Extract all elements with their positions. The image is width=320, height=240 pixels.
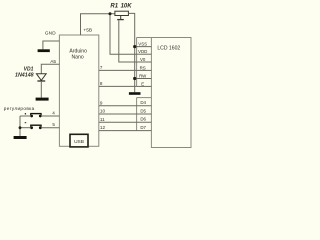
button SB2 actuator — [30, 124, 41, 126]
wire buttons common to ground — [19, 116, 21, 136]
V0 rung wire — [137, 61, 152, 63]
VSS rung wire — [135, 46, 152, 48]
resistor R1 (potentiometer body) — [115, 11, 128, 15]
wire wiper to V0 — [119, 20, 137, 62]
R1 wiper tap — [120, 16, 122, 20]
svg-text:11: 11 — [100, 117, 105, 122]
wire button SB2 to pin 5 — [42, 127, 59, 129]
diode VD1 cathode bar — [37, 80, 45, 82]
ladder top rung — [137, 37, 152, 39]
label minus — [25, 122, 27, 124]
wire pin12 to D7 — [99, 130, 152, 132]
svg-text:10K: 10K — [121, 4, 133, 10]
Arduino Nano U-box — [59, 35, 98, 146]
svg-text:5: 5 — [52, 122, 55, 127]
wire pin7 to RS — [99, 69, 137, 71]
wire diode to ground — [40, 81, 42, 98]
wire button SB1 to pin 4 — [42, 115, 59, 117]
RW rung — [135, 78, 152, 80]
wire pin11 to D6 — [99, 121, 152, 123]
node RW junction — [133, 77, 136, 80]
ground symbol under diode — [36, 98, 49, 101]
R1 right lead to ground rail — [128, 13, 134, 92]
LCD 1602 box — [151, 38, 191, 148]
svg-text:VDD: VDD — [138, 49, 147, 54]
button SB1 actuator — [30, 113, 41, 115]
wire pin10 to D5 — [99, 113, 152, 115]
wire GND net from Arduino — [43, 41, 60, 49]
wire pin8 to E — [99, 85, 137, 87]
svg-text:R1: R1 — [110, 4, 118, 10]
svg-text:9: 9 — [100, 100, 103, 105]
svg-text:LCD 1602: LCD 1602 — [157, 46, 180, 52]
ground bar for LCD VSS/RW net — [129, 92, 141, 95]
button SB1 contacts — [30, 115, 33, 118]
svg-text:4: 4 — [52, 110, 55, 115]
node buttons junction — [19, 126, 22, 129]
svg-text:+5B: +5B — [83, 28, 92, 34]
svg-text:VSS: VSS — [138, 41, 147, 46]
wire pin9 to D4 — [99, 105, 152, 107]
svg-text:E: E — [141, 81, 144, 86]
ground symbol buttons — [14, 136, 27, 139]
ground symbol top-left — [38, 49, 50, 52]
svg-text:Nano: Nano — [72, 55, 84, 61]
node junction +5B — [109, 12, 112, 15]
svg-text:D5: D5 — [140, 108, 146, 113]
E rung — [137, 85, 152, 87]
svg-text:D6: D6 — [140, 117, 146, 122]
wire button SB2 left terminal — [20, 127, 30, 129]
diode VD1 triangle (anode) — [36, 74, 46, 81]
svg-text:A5: A5 — [50, 59, 56, 65]
wire A5 to diode — [41, 64, 59, 73]
svg-text:RW: RW — [139, 73, 147, 78]
svg-text:1N4148: 1N4148 — [15, 72, 34, 78]
svg-text:V0: V0 — [140, 57, 146, 62]
LCD data pin ladder rail (D4..D7) — [136, 98, 138, 131]
VDD rung wire — [137, 53, 152, 55]
svg-text:D7: D7 — [140, 125, 146, 130]
svg-text:USB: USB — [74, 139, 84, 145]
svg-text:10: 10 — [100, 109, 106, 114]
label plus — [25, 113, 26, 114]
node VSS junction — [133, 45, 136, 48]
wire +5B branch down to VDD — [110, 14, 137, 54]
svg-text:RS: RS — [140, 65, 146, 70]
svg-text:8: 8 — [100, 81, 103, 86]
wire +5B net: box top to R1 — [81, 14, 115, 35]
wire button SB1 left terminal — [20, 115, 30, 117]
svg-text:регулировка: регулировка — [4, 106, 35, 111]
svg-text:12: 12 — [100, 125, 106, 130]
LCD pin ladder rail (VSS..E) — [136, 38, 138, 87]
svg-text:7: 7 — [100, 65, 103, 70]
data ladder top rung — [137, 97, 152, 99]
svg-text:D4: D4 — [140, 100, 146, 105]
RS rung — [137, 69, 152, 71]
svg-text:GND: GND — [45, 31, 56, 36]
button SB2 contacts — [30, 126, 33, 129]
USB connector box — [70, 134, 88, 147]
